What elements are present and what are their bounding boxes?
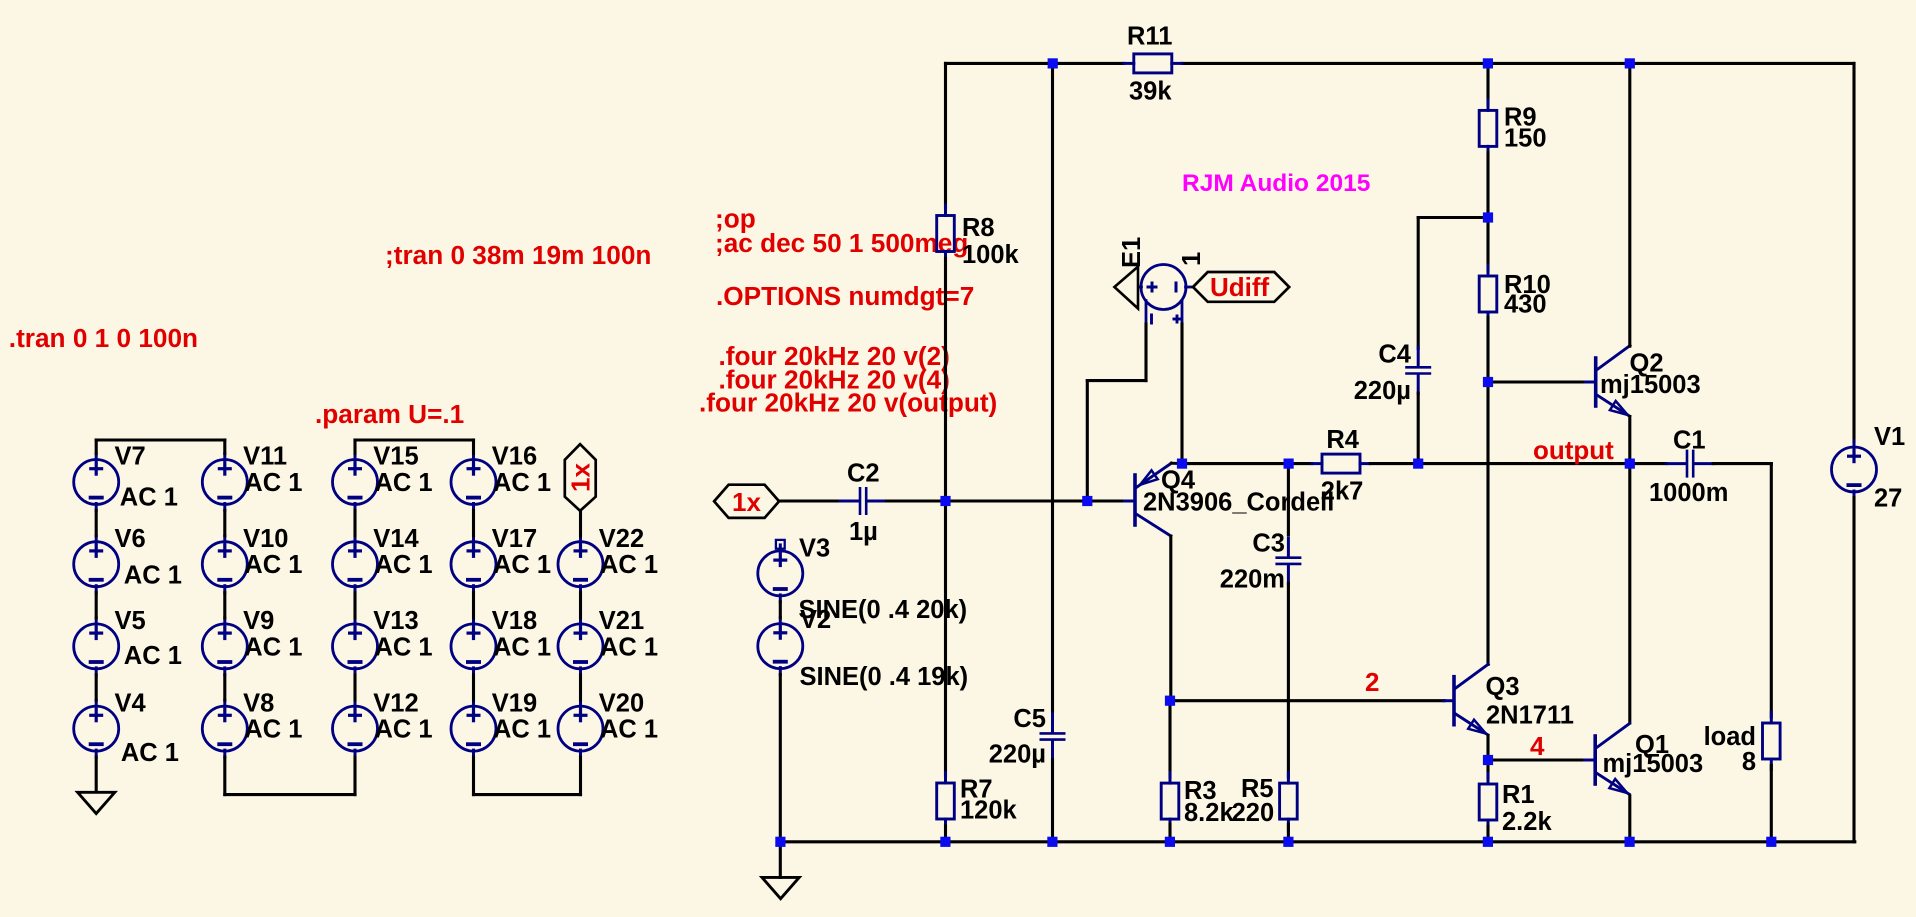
- voltage source V20: [558, 689, 658, 757]
- voltage source V14: [333, 525, 433, 593]
- voltage source V5: [74, 607, 182, 675]
- voltage source V22: [558, 525, 658, 593]
- svg-text:C3: C3: [1252, 530, 1285, 558]
- voltage source V17: [451, 525, 551, 593]
- junction: [1766, 837, 1776, 847]
- wire: [944, 63, 947, 208]
- svg-text:V15: V15: [373, 443, 418, 471]
- junction: [1483, 58, 1493, 68]
- resistor R3: [1161, 773, 1234, 830]
- voltage source V4: [74, 689, 179, 767]
- resistor R5: [1232, 773, 1298, 830]
- svg-text:V19: V19: [492, 689, 537, 717]
- wire: [944, 826, 947, 842]
- svg-text:V5: V5: [115, 607, 146, 635]
- junction: [1413, 459, 1423, 469]
- wire: [1417, 218, 1420, 349]
- svg-text:;tran 0 38m 19m 100n: ;tran 0 38m 19m 100n: [385, 240, 651, 270]
- voltage source V15: [333, 443, 433, 511]
- voltage source V11: [202, 443, 302, 511]
- wire: [1180, 324, 1183, 464]
- wire: [1486, 153, 1489, 271]
- wire: [96, 440, 225, 454]
- svg-text:R8: R8: [962, 214, 995, 242]
- wire: [1169, 536, 1172, 701]
- svg-text:mj15003: mj15003: [1603, 750, 1704, 778]
- svg-text:AC 1: AC 1: [600, 633, 658, 661]
- wire: [946, 62, 1124, 65]
- ground: [762, 877, 799, 898]
- node marker (floating pin above V3): [776, 540, 785, 552]
- svg-text:AC 1: AC 1: [244, 716, 302, 744]
- wire: [579, 511, 582, 536]
- voltage source V19: [451, 689, 551, 757]
- wire: [353, 675, 356, 700]
- svg-text:1µ: 1µ: [849, 518, 878, 546]
- wire: [225, 757, 355, 795]
- wire: [780, 840, 1855, 843]
- voltage source V8: [202, 689, 302, 757]
- junction: [1165, 837, 1175, 847]
- svg-text:AC 1: AC 1: [493, 633, 551, 661]
- node output: [1533, 435, 1614, 465]
- resistor R4: [1312, 426, 1370, 505]
- svg-text:SINE(0 .4 19k): SINE(0 .4 19k): [800, 663, 969, 691]
- svg-text:AC 1: AC 1: [124, 642, 182, 670]
- svg-text:R1: R1: [1502, 781, 1535, 809]
- svg-text:AC 1: AC 1: [375, 716, 433, 744]
- svg-text:39k: 39k: [1129, 78, 1172, 106]
- wire: [1168, 824, 1171, 842]
- port 1x (to V22 chain): [565, 444, 596, 511]
- wire: [944, 259, 947, 777]
- capacitor C5: [989, 705, 1066, 769]
- wire: [472, 593, 475, 618]
- wire: [95, 593, 98, 618]
- directive .OPTIONS numdgt=7: [716, 281, 974, 311]
- svg-text:AC 1: AC 1: [375, 469, 433, 497]
- junction: [1483, 212, 1493, 222]
- port Udiff: [1193, 272, 1289, 302]
- directive .four 20kHz 20 v(output): [699, 388, 997, 418]
- voltage source V2: [758, 606, 968, 691]
- transistor Q3 (2N1711): [1444, 664, 1574, 735]
- junction: [1082, 496, 1092, 506]
- svg-text:V17: V17: [492, 525, 537, 553]
- wire: [95, 757, 98, 792]
- svg-text:1000m: 1000m: [1649, 479, 1728, 507]
- wire: [1628, 417, 1631, 723]
- svg-text:V7: V7: [115, 443, 146, 471]
- wire: [1713, 462, 1771, 465]
- svg-text:RJM Audio 2015: RJM Audio 2015: [1182, 170, 1370, 197]
- svg-text:AC 1: AC 1: [493, 716, 551, 744]
- svg-text:150: 150: [1504, 124, 1547, 152]
- capacitor C4: [1354, 341, 1431, 406]
- wire: [779, 499, 843, 502]
- wire: [579, 593, 582, 618]
- svg-text:V2: V2: [800, 606, 831, 634]
- resistor R1: [1479, 774, 1552, 837]
- wire: [1287, 584, 1290, 778]
- junction: [1625, 58, 1635, 68]
- wire: [1770, 464, 1773, 717]
- svg-text:220µ: 220µ: [989, 741, 1046, 769]
- svg-text:220m: 220m: [1220, 566, 1285, 594]
- voltage source V10: [202, 525, 302, 593]
- svg-text:AC 1: AC 1: [244, 633, 302, 661]
- node 2: [1365, 667, 1379, 697]
- svg-text:V14: V14: [373, 525, 419, 553]
- directive .param U=.1: [315, 399, 464, 429]
- junction: [1284, 459, 1294, 469]
- wire: [1852, 63, 1855, 441]
- svg-text:C2: C2: [847, 460, 880, 488]
- svg-text:.OPTIONS numdgt=7: .OPTIONS numdgt=7: [716, 281, 974, 311]
- svg-text:.tran 0 1 0 100n: .tran 0 1 0 100n: [9, 323, 198, 353]
- dependent source E1: [1114, 237, 1206, 325]
- wire: [1418, 216, 1488, 219]
- svg-text:E1: E1: [1118, 237, 1146, 268]
- svg-text:1: 1: [1178, 252, 1206, 266]
- wire: [1770, 765, 1773, 842]
- svg-text:AC 1: AC 1: [375, 633, 433, 661]
- wire: [353, 511, 356, 536]
- svg-text:Udiff: Udiff: [1210, 272, 1270, 302]
- svg-text:V9: V9: [243, 607, 274, 635]
- svg-text:AC 1: AC 1: [121, 739, 179, 767]
- svg-text:430: 430: [1504, 291, 1547, 319]
- svg-text:Q3: Q3: [1486, 673, 1520, 701]
- svg-text:C1: C1: [1673, 427, 1706, 455]
- svg-text:.four 20kHz 20 v(output): .four 20kHz 20 v(output): [699, 388, 997, 418]
- svg-text:C5: C5: [1013, 705, 1046, 733]
- wire: [779, 675, 782, 842]
- svg-text:AC 1: AC 1: [493, 551, 551, 579]
- wire: [95, 511, 98, 536]
- wire: [353, 593, 356, 618]
- voltage source V21: [558, 607, 658, 675]
- wire: [779, 602, 782, 618]
- wire: [1287, 824, 1290, 842]
- svg-text:V1: V1: [1874, 423, 1905, 451]
- svg-text:C4: C4: [1378, 341, 1411, 369]
- capacitor C2: [840, 460, 886, 547]
- node 4: [1530, 731, 1545, 761]
- wire: [1144, 324, 1147, 381]
- svg-text:2N1711: 2N1711: [1486, 702, 1574, 730]
- transistor Q2 (mj15003): [1585, 346, 1700, 417]
- voltage source V9: [202, 607, 302, 675]
- junction: [940, 496, 950, 506]
- svg-text:AC 1: AC 1: [375, 551, 433, 579]
- svg-text:27: 27: [1874, 485, 1902, 513]
- wire: [1486, 736, 1489, 760]
- svg-text:V21: V21: [599, 607, 644, 635]
- wire: [355, 440, 474, 454]
- wire: [1486, 318, 1489, 665]
- voltage source V16: [451, 443, 551, 511]
- svg-text:220: 220: [1232, 799, 1275, 827]
- resistor load: [1704, 713, 1781, 777]
- svg-text:AC 1: AC 1: [244, 551, 302, 579]
- junction: [1177, 459, 1187, 469]
- wire: [1087, 379, 1146, 382]
- junction: [1625, 459, 1635, 469]
- wire: [1486, 826, 1489, 842]
- svg-text:2: 2: [1365, 667, 1379, 697]
- wire: [779, 842, 782, 878]
- svg-text:1x: 1x: [732, 487, 761, 517]
- directive .tran 0 1 0 100n: [9, 323, 198, 353]
- svg-text:V12: V12: [373, 689, 418, 717]
- wire: [887, 499, 1126, 502]
- svg-text:2N3906_Cordell: 2N3906_Cordell: [1143, 489, 1334, 517]
- svg-text:AC 1: AC 1: [493, 469, 551, 497]
- svg-text:2k7: 2k7: [1321, 478, 1364, 506]
- resistor R11: [1124, 23, 1182, 106]
- svg-text:R4: R4: [1326, 426, 1359, 454]
- wire: [1051, 760, 1054, 842]
- voltage source V7: [74, 443, 178, 512]
- junction: [1047, 837, 1057, 847]
- directive .four 20kHz 20 v(2): [719, 341, 950, 371]
- wire: [1628, 796, 1631, 842]
- wire: [1417, 393, 1420, 463]
- voltage source V12: [333, 689, 433, 757]
- svg-text:;ac dec 50 1 500meg: ;ac dec 50 1 500meg: [715, 228, 968, 258]
- wire: [223, 593, 226, 618]
- voltage source V3: [758, 535, 967, 625]
- svg-text:4: 4: [1530, 731, 1545, 761]
- resistor R8: [937, 205, 1020, 269]
- transistor Q4 (2N3906_Cordell): [1125, 463, 1335, 536]
- wire: [1170, 699, 1444, 702]
- resistor R9: [1479, 100, 1546, 157]
- wire: [1182, 462, 1312, 465]
- capacitor C3: [1220, 530, 1302, 594]
- svg-text:load: load: [1704, 723, 1756, 751]
- junction: [940, 837, 950, 847]
- svg-text:AC 1: AC 1: [124, 561, 182, 589]
- junction: [1483, 837, 1493, 847]
- voltage source V1: [1832, 423, 1906, 513]
- svg-text:1x: 1x: [566, 463, 596, 492]
- wire: [1287, 464, 1290, 535]
- svg-text:V11: V11: [243, 443, 287, 471]
- ground: [78, 792, 115, 813]
- transistor Q1 (mj15003): [1585, 724, 1703, 795]
- svg-text:V20: V20: [599, 689, 644, 717]
- svg-text:V13: V13: [373, 607, 418, 635]
- wire: [1488, 380, 1585, 383]
- junction: [1483, 755, 1493, 765]
- junction: [1283, 837, 1293, 847]
- voltage source V18: [451, 607, 551, 675]
- directive ;op: [715, 204, 756, 234]
- wire: [1182, 62, 1854, 65]
- wire: [223, 675, 226, 700]
- port 1x: [714, 485, 779, 518]
- svg-text:V3: V3: [799, 535, 830, 563]
- directive ;tran 0 38m 19m 100n: [385, 240, 651, 270]
- wire: [1852, 498, 1855, 842]
- wire: [1628, 63, 1631, 346]
- wire: [472, 675, 475, 700]
- svg-text:8: 8: [1742, 748, 1756, 776]
- svg-text:AC 1: AC 1: [600, 551, 658, 579]
- svg-text:2.2k: 2.2k: [1502, 808, 1552, 836]
- junction: [1625, 837, 1635, 847]
- junction: [1483, 377, 1493, 387]
- wire: [1488, 758, 1585, 761]
- wire: [1370, 462, 1666, 465]
- voltage source V6: [74, 525, 182, 593]
- directive .four 20kHz 20 v(4): [719, 365, 950, 395]
- svg-text:output: output: [1533, 435, 1614, 465]
- svg-text:AC 1: AC 1: [120, 484, 178, 512]
- svg-text:.param U=.1: .param U=.1: [315, 399, 464, 429]
- wire: [1171, 462, 1182, 465]
- svg-text:V18: V18: [492, 607, 537, 635]
- junction: [1165, 696, 1175, 706]
- svg-text:AC 1: AC 1: [244, 469, 302, 497]
- svg-text:V16: V16: [492, 443, 537, 471]
- svg-text:V6: V6: [115, 525, 146, 553]
- junction: [775, 837, 785, 847]
- voltage source V13: [333, 607, 433, 675]
- svg-text:V8: V8: [243, 689, 274, 717]
- wire: [1086, 381, 1089, 501]
- directive ;ac dec 50 1 500meg: [715, 228, 968, 258]
- svg-text:AC 1: AC 1: [600, 716, 658, 744]
- resistor R10: [1479, 266, 1551, 323]
- wire: [1051, 63, 1054, 711]
- wire: [472, 511, 475, 536]
- svg-text:220µ: 220µ: [1354, 377, 1411, 405]
- comment RJM Audio 2015: [1182, 170, 1370, 197]
- svg-text:8.2k: 8.2k: [1184, 799, 1234, 827]
- svg-text:mj15003: mj15003: [1600, 371, 1701, 399]
- svg-text:V10: V10: [243, 525, 288, 553]
- wire: [579, 675, 582, 700]
- svg-text:120k: 120k: [960, 797, 1018, 825]
- resistor R7: [937, 773, 1018, 830]
- wire: [1168, 701, 1171, 777]
- wire: [95, 675, 98, 700]
- svg-text:V4: V4: [115, 689, 147, 717]
- junction: [1048, 58, 1058, 68]
- svg-text:R11: R11: [1127, 23, 1172, 51]
- capacitor C1: [1649, 427, 1728, 508]
- wire: [1486, 63, 1489, 104]
- wire: [223, 511, 226, 536]
- svg-text:V22: V22: [599, 525, 644, 553]
- wire: [1486, 760, 1489, 778]
- wire: [474, 757, 581, 795]
- svg-text:100k: 100k: [962, 241, 1020, 269]
